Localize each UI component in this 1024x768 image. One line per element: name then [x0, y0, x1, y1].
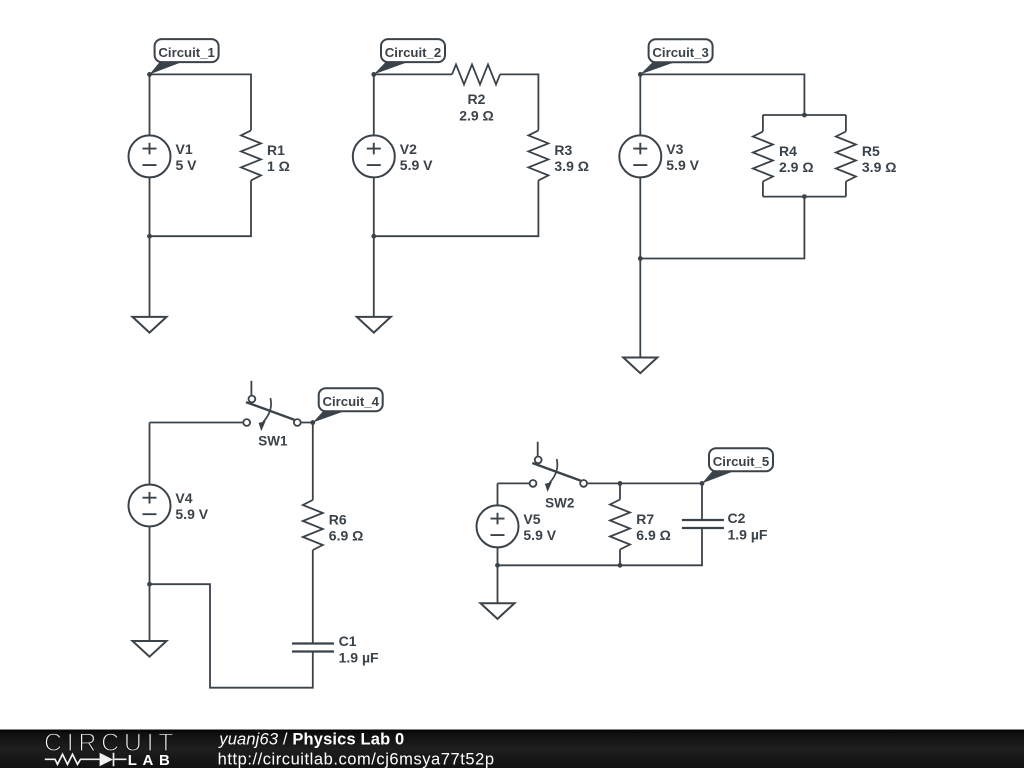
svg-text:1.9 µF: 1.9 µF	[728, 526, 768, 542]
svg-text:2.9 Ω: 2.9 Ω	[459, 107, 494, 123]
svg-text:R2: R2	[468, 91, 486, 107]
svg-text:V1: V1	[176, 141, 193, 157]
svg-text:V3: V3	[666, 141, 683, 157]
svg-text:3.9 Ω: 3.9 Ω	[554, 158, 589, 174]
svg-text:V5: V5	[523, 511, 540, 527]
svg-text:5.9 V: 5.9 V	[175, 506, 208, 522]
svg-text:5.9 V: 5.9 V	[400, 157, 433, 173]
svg-text:2.9 Ω: 2.9 Ω	[779, 159, 814, 175]
svg-text:R4: R4	[779, 143, 797, 159]
svg-text:R3: R3	[554, 142, 572, 158]
svg-text:LAB: LAB	[128, 752, 176, 768]
svg-text:R6: R6	[329, 511, 347, 527]
svg-text:5.9 V: 5.9 V	[523, 527, 556, 543]
svg-text:Circuit_5: Circuit_5	[713, 454, 769, 469]
svg-text:V2: V2	[400, 141, 417, 157]
svg-text:6.9 Ω: 6.9 Ω	[329, 528, 364, 544]
svg-text:C2: C2	[728, 510, 746, 526]
svg-text:V4: V4	[175, 490, 192, 506]
svg-text:Circuit_4: Circuit_4	[322, 394, 379, 409]
svg-text:R1: R1	[267, 142, 285, 158]
svg-text:Circuit_2: Circuit_2	[385, 45, 441, 60]
svg-text:1.9 µF: 1.9 µF	[339, 650, 379, 666]
svg-text:3.9 Ω: 3.9 Ω	[862, 159, 897, 175]
svg-text:R5: R5	[862, 143, 880, 159]
svg-text:SW1: SW1	[258, 433, 288, 448]
svg-text:Circuit_3: Circuit_3	[652, 45, 708, 60]
svg-text:SW2: SW2	[545, 496, 574, 511]
svg-text:6.9 Ω: 6.9 Ω	[636, 527, 671, 543]
svg-text:yuanj63 / Physics Lab 0: yuanj63 / Physics Lab 0	[218, 731, 404, 749]
svg-text:R7: R7	[636, 511, 654, 527]
svg-text:5.9 V: 5.9 V	[666, 157, 699, 173]
svg-text:1 Ω: 1 Ω	[267, 158, 290, 174]
svg-text:5 V: 5 V	[176, 157, 198, 173]
svg-text:http://circuitlab.com/cj6msya7: http://circuitlab.com/cj6msya77t52p	[218, 751, 495, 768]
svg-text:C1: C1	[339, 633, 357, 649]
svg-text:Circuit_1: Circuit_1	[158, 45, 214, 60]
